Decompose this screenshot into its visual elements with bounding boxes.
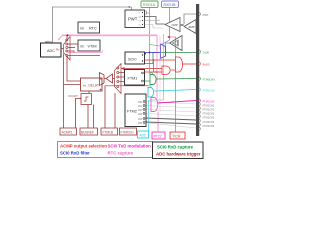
- comparator CMP1: [165, 18, 180, 32]
- svg-text:FTM1CH1: FTM1CH1: [203, 99, 216, 103]
- wire FTM2 pin light extra: [146, 123, 196, 128]
- wire blue vertical from RXD1B: [162, 7, 170, 44]
- wire mux in4: [68, 51, 74, 53]
- wire mux2 out: [113, 78, 115, 80]
- pin RxD0: [199, 62, 210, 67]
- wire PWT to CMP: [145, 17, 165, 25]
- wire CMP-AMP junction: [180, 24, 184, 26]
- wire ADC trigger top: [53, 7, 132, 43]
- comparator CMP2: [170, 36, 183, 51]
- wire edge box up: [88, 91, 90, 94]
- svg-text:FTM0CH0: FTM0CH0: [203, 77, 216, 81]
- svg-text:CMP: CMP: [172, 23, 178, 27]
- svg-text:BUSREF: BUSREF: [81, 130, 94, 134]
- svg-text:ICOUT: ICOUT: [69, 94, 79, 98]
- svg-text:FTM2CH3: FTM2CH3: [203, 116, 215, 119]
- wire FTM2 ch5 bus: [146, 122, 196, 124]
- wire FTM2 ch4 bus: [146, 118, 196, 120]
- node arrowhead: [121, 67, 125, 70]
- svg-text:RxD0: RxD0: [203, 62, 210, 66]
- wire stub box3: [104, 86, 106, 128]
- svg-text:ch0: ch0: [138, 101, 143, 104]
- wire delay out up: [63, 54, 65, 129]
- box FTM0CH bottom: [120, 128, 137, 135]
- wire red top arrow: [121, 68, 162, 70]
- svg-text:PWT: PWT: [128, 17, 138, 22]
- mux FTM trigger: [115, 64, 122, 94]
- pin RTCO: [199, 99, 215, 104]
- label box RXD green: [141, 1, 158, 7]
- wire mux in2 VTIM: [68, 43, 78, 45]
- svg-text:TICM: TICM: [173, 134, 181, 138]
- wire FTM1 green pin: [145, 80, 150, 82]
- node blue junction: [169, 36, 171, 38]
- svg-text:TxD0: TxD0: [203, 50, 210, 54]
- box PWT: [125, 10, 145, 28]
- wire green vertical from RXD1A: [149, 7, 151, 74]
- svg-text:ACMP output selection: ACMP output selection: [60, 144, 107, 149]
- wire PWT pin3: [145, 25, 164, 29]
- svg-text:VTIM: VTIM: [88, 45, 97, 49]
- wire PWT pin2: [145, 20, 160, 22]
- wire red tap to vertical: [169, 37, 176, 57]
- wire mux2 in lines: [119, 73, 124, 82]
- pin PWT_IN: [199, 12, 209, 17]
- svg-text:FTM2: FTM2: [127, 110, 137, 114]
- wire green out to bar: [156, 78, 196, 81]
- wire cyan out to bar: [154, 90, 196, 92]
- box ACMP1 bottom: [60, 128, 77, 135]
- wire magenta down to box: [157, 112, 159, 133]
- mux ADC trigger: [64, 37, 71, 61]
- node arrow into PWT top: [129, 6, 132, 8]
- wire stub box3b: [114, 93, 116, 128]
- svg-text:FTM2CH1: FTM2CH1: [203, 108, 215, 111]
- pin FTM2CH3: [199, 115, 214, 120]
- pin FTM2CH5b: [199, 127, 200, 130]
- box edge detect: [80, 94, 92, 105]
- svg-text:Rx: Rx: [56, 47, 60, 51]
- wire green TxD to bar: [145, 53, 196, 64]
- gate AND red: [162, 66, 170, 74]
- wire delay feed: [64, 84, 81, 86]
- wire CMP2 apex to blue mux: [166, 43, 170, 46]
- wire pink RTC to VTIM: [68, 51, 103, 53]
- wire magenta vertical: [156, 35, 158, 97]
- svg-text:DELAY: DELAY: [89, 84, 100, 88]
- wire RTC capture pink horizontal: [62, 34, 157, 36]
- node red tap: [168, 36, 170, 38]
- svg-text:FTM1B: FTM1B: [103, 130, 113, 134]
- legend left box: [58, 142, 153, 158]
- wire mux in5 down delay: [67, 57, 81, 81]
- wire cyan vertical: [149, 34, 164, 100]
- svg-text:RTCC: RTCC: [154, 134, 163, 138]
- wire PWT pin to bar: [184, 14, 196, 24]
- box RTC: [78, 22, 100, 33]
- pin FTM2CH5: [199, 123, 214, 128]
- svg-text:RTC: RTC: [89, 27, 97, 31]
- wire SCI0 red out: [145, 59, 175, 61]
- wire red vertical low: [175, 72, 177, 132]
- pin label pwtin: [145, 11, 149, 15]
- wire mux in3: [68, 47, 75, 49]
- svg-text:FTM0CH: FTM0CH: [121, 130, 135, 134]
- box FTM2: [125, 94, 146, 127]
- pin FTM2CH4: [199, 119, 214, 124]
- box VTIM: [78, 40, 100, 51]
- pin FTM2CH2: [199, 111, 214, 116]
- svg-text:SCI0 RxD capture: SCI0 RxD capture: [157, 145, 194, 150]
- box ADC: [41, 43, 62, 57]
- wire FTM1 red pin: [145, 71, 157, 73]
- wire green branch to mux: [150, 45, 161, 47]
- svg-text:ch3: ch3: [138, 113, 143, 116]
- wire blue to SCI0: [145, 53, 161, 55]
- buffer AMP: [184, 20, 196, 34]
- box RTCC magenta bottom: [152, 132, 165, 139]
- bus bar: [196, 4, 199, 136]
- svg-text:SCI0 TxD modulation: SCI0 TxD modulation: [108, 144, 152, 149]
- svg-text:FTM2CH2: FTM2CH2: [203, 112, 215, 115]
- legend right box: [153, 142, 204, 159]
- svg-text:SCI0 RxD filter: SCI0 RxD filter: [60, 151, 90, 156]
- wire mux in1 up: [66, 35, 68, 39]
- svg-text:int: int: [80, 45, 84, 49]
- svg-text:int: int: [80, 27, 84, 31]
- wire stub box2a: [87, 105, 89, 129]
- svg-text:FTM1: FTM1: [128, 77, 138, 81]
- pin FTM2CH0: [199, 103, 214, 108]
- svg-text:FTM2CH0: FTM2CH0: [203, 104, 215, 107]
- mux blue RxD filter select: [161, 44, 166, 59]
- svg-text:ACMP1: ACMP1: [62, 130, 73, 134]
- box DELAY: [81, 78, 103, 91]
- wire stub box2b: [93, 105, 95, 129]
- svg-text:ADC: ADC: [140, 133, 147, 137]
- buffer left triangle: [106, 74, 113, 83]
- wire mux2 bottom: [105, 85, 150, 87]
- box FTM1B bottom: [101, 128, 118, 135]
- mux delay input trapezoid: [100, 73, 105, 86]
- wire pink vertical: [159, 35, 161, 112]
- svg-text:ADC: ADC: [47, 49, 55, 53]
- pin ADC capture: [199, 88, 215, 93]
- wire cyan down to box: [148, 100, 150, 131]
- wire magenta out to bar: [158, 101, 197, 104]
- svg-text:ADC hardware trigger: ADC hardware trigger: [156, 152, 201, 157]
- svg-text:ch5: ch5: [138, 122, 143, 125]
- svg-text:adtrg: adtrg: [45, 39, 52, 43]
- label box RXD blue: [162, 1, 179, 7]
- svg-text:SCI0: SCI0: [128, 57, 136, 61]
- box FTM1: [125, 70, 145, 86]
- svg-text:ch2: ch2: [138, 109, 143, 112]
- wire mux in5 right: [68, 55, 100, 57]
- wire FTM2 ch lines to bar: [146, 102, 196, 117]
- mux magenta RTC capture: [151, 98, 158, 112]
- svg-text:RTC capture: RTC capture: [108, 151, 134, 156]
- box TICM red bottom: [170, 132, 185, 139]
- wire red and inputs: [154, 60, 163, 72]
- svg-text:PWT: PWT: [203, 13, 209, 17]
- box SCI0: [125, 52, 145, 64]
- node blue-green junction: [149, 52, 151, 54]
- mux red TxD: [176, 57, 183, 72]
- mux cyan capture: [148, 88, 154, 98]
- pin FTM0CH0: [199, 77, 215, 82]
- wire AND out: [171, 69, 176, 71]
- wire buffer to trap: [100, 78, 107, 81]
- svg-text:RXD1B: RXD1B: [164, 3, 177, 7]
- svg-text:AMP: AMP: [189, 25, 195, 29]
- svg-text:FTM2CH5: FTM2CH5: [203, 125, 215, 128]
- box BUSREF bottom: [80, 128, 98, 135]
- svg-text:FTM1CH0: FTM1CH0: [203, 88, 216, 92]
- svg-text:FTM2CH4: FTM2CH4: [203, 121, 215, 124]
- pin TxD0: [199, 50, 209, 55]
- wire mux out to ADC: [61, 48, 64, 50]
- svg-text:int: int: [83, 84, 86, 88]
- svg-text:ch4: ch4: [138, 118, 143, 121]
- svg-text:ch1: ch1: [138, 105, 143, 108]
- pin FTM2CH1: [199, 107, 214, 112]
- box ADC cyan bottom: [138, 131, 149, 138]
- wire stub box1b: [76, 99, 81, 129]
- mux green FTM0: [150, 75, 156, 85]
- node junction magenta dot: [67, 34, 69, 36]
- wire red to bar: [182, 63, 196, 65]
- svg-text:RXD1A: RXD1A: [143, 3, 156, 7]
- node RTC pink arrow: [59, 35, 63, 39]
